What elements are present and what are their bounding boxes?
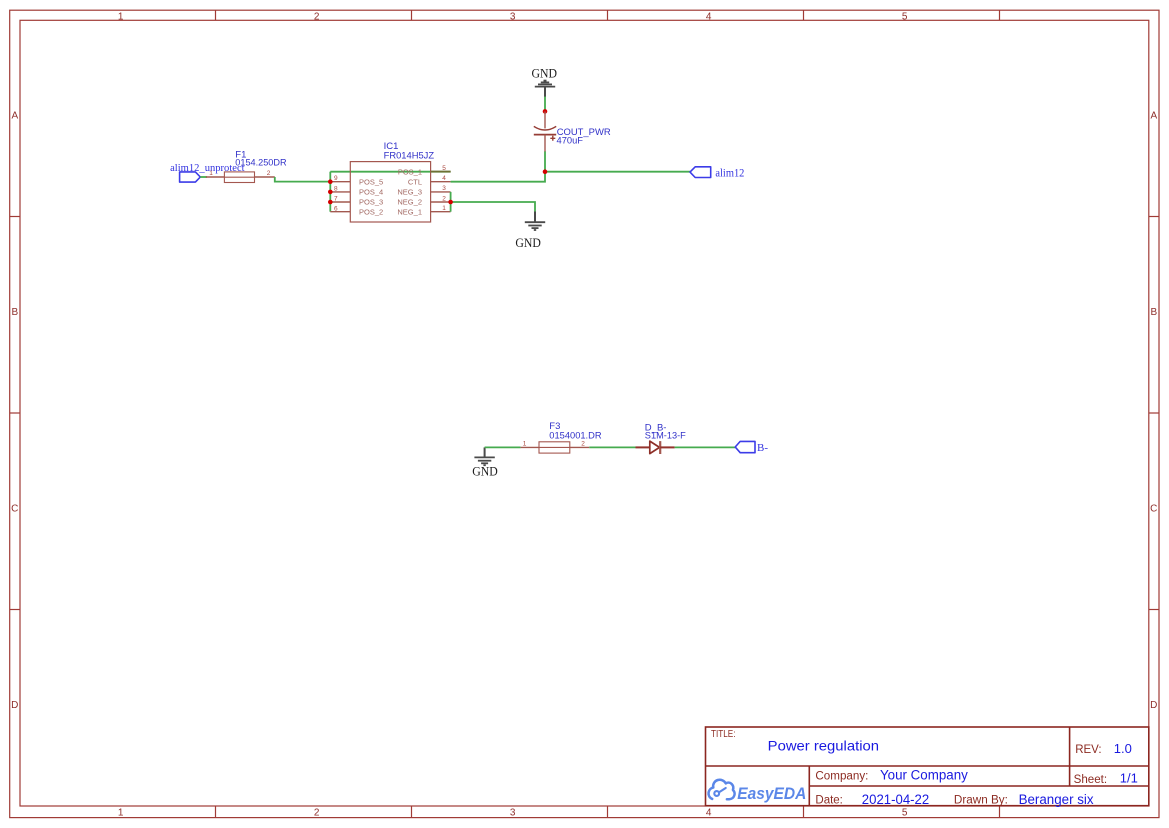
svg-text:Power regulation: Power regulation [768,738,879,754]
wire capacitor upper stem [544,96,546,111]
wire flag stub [200,176,207,178]
junction at capacitor / alim12 node [543,169,548,174]
svg-text:EasyEDA: EasyEDA [737,784,806,803]
svg-text:NEG_2: NEG_2 [397,198,422,207]
svg-text:Beranger six: Beranger six [1019,792,1094,807]
svg-text:C: C [11,504,18,515]
wire capacitor lower stem [544,151,546,171]
wire right NEG bus [450,192,452,212]
svg-text:A: A [1150,111,1157,122]
svg-text:S1M-13-F: S1M-13-F [645,431,686,442]
net flag B- [735,441,768,453]
svg-text:TITLE:: TITLE: [711,729,736,740]
svg-text:3: 3 [442,185,446,192]
wire NEG_2 to ground [451,202,535,212]
svg-text:Your Company: Your Company [880,768,968,783]
svg-text:GND: GND [472,465,498,479]
svg-text:Sheet:: Sheet: [1074,774,1108,786]
svg-text:4: 4 [706,807,712,818]
svg-text:CTL: CTL [408,177,422,186]
svg-text:0154.250DR: 0154.250DR [235,157,286,168]
svg-text:alim12: alim12 [715,168,744,180]
junction at pin 7 [328,200,333,205]
junction at GND-capacitor node [543,109,548,114]
svg-text:REV:: REV: [1075,744,1101,756]
svg-text:3: 3 [510,11,516,22]
svg-text:Date:: Date: [815,794,843,806]
svg-text:1/1: 1/1 [1120,771,1138,786]
net flag alim12_unprotect [170,162,245,182]
svg-text:4: 4 [706,11,712,22]
ground GND (second circuit) [472,447,498,478]
svg-text:0154001.DR: 0154001.DR [549,431,601,442]
svg-text:8: 8 [334,185,338,192]
svg-text:D: D [11,700,18,711]
wire fuse F1 to IC bus [275,177,331,182]
junction at pin 2 [448,200,453,205]
svg-text:9: 9 [334,175,338,182]
svg-text:1: 1 [118,11,124,22]
wire CTL to alim12 node [451,172,690,182]
svg-text:B-: B- [757,442,768,454]
svg-text:1: 1 [442,205,446,212]
svg-text:A: A [11,111,18,122]
svg-text:GND: GND [532,66,558,80]
svg-text:2: 2 [267,170,271,177]
svg-text:POS_5: POS_5 [359,177,383,186]
svg-text:5: 5 [902,807,908,818]
svg-text:4: 4 [442,175,446,182]
junction at pin 8 [328,190,333,195]
title block [706,727,1149,806]
net flag alim12 [690,167,744,180]
svg-text:1: 1 [118,807,124,818]
wire over pin 5 (overlap tint) [431,171,451,173]
svg-text:POS_4: POS_4 [359,188,383,197]
IC1 pin names [359,167,422,216]
svg-text:POS_2: POS_2 [359,207,383,216]
svg-text:FR014H5JZ: FR014H5JZ [384,150,435,161]
svg-text:2: 2 [314,11,320,22]
svg-text:C: C [1150,504,1157,515]
wire left pin bus [329,172,331,212]
ground GND (top, inverted) [532,66,558,96]
svg-text:NEG_3: NEG_3 [397,188,422,197]
svg-text:B: B [1150,307,1157,318]
capacitor COUT_PWR 470uF [534,111,611,151]
EasyEDA logo [708,780,806,803]
wire top across to pin 5 [330,171,450,173]
svg-text:470uF: 470uF [557,136,584,147]
svg-text:Company:: Company: [815,771,868,783]
svg-text:D: D [1150,700,1157,711]
svg-text:2: 2 [314,807,320,818]
svg-text:1: 1 [523,440,527,447]
svg-text:2: 2 [442,195,446,202]
junction at pin 9 [328,179,333,184]
svg-text:6: 6 [334,205,338,212]
svg-text:5: 5 [902,11,908,22]
wire diode to B- flag [675,446,736,448]
svg-text:GND: GND [515,236,541,250]
wire ground to fuse F3 [485,446,521,448]
svg-text:Drawn By:: Drawn By: [954,795,1008,807]
fuse F3 [521,421,602,453]
svg-text:POS_1: POS_1 [398,167,422,176]
svg-text:1: 1 [209,170,213,177]
svg-text:POS_3: POS_3 [359,198,383,207]
svg-text:NEG_1: NEG_1 [397,207,422,216]
ground GND (below IC) [515,212,545,251]
fuse F1 [206,150,287,183]
diode D_B- S1M-13-F [636,422,686,454]
svg-text:2021-04-22: 2021-04-22 [862,792,929,807]
svg-text:1.0: 1.0 [1114,741,1132,756]
IC IC1 FR014H5JZ [330,141,450,222]
svg-text:B: B [11,307,18,318]
IC1 pin numbers [334,165,446,212]
svg-text:3: 3 [510,807,516,818]
svg-text:7: 7 [334,196,338,203]
wire fuse F3 to diode [589,446,635,448]
